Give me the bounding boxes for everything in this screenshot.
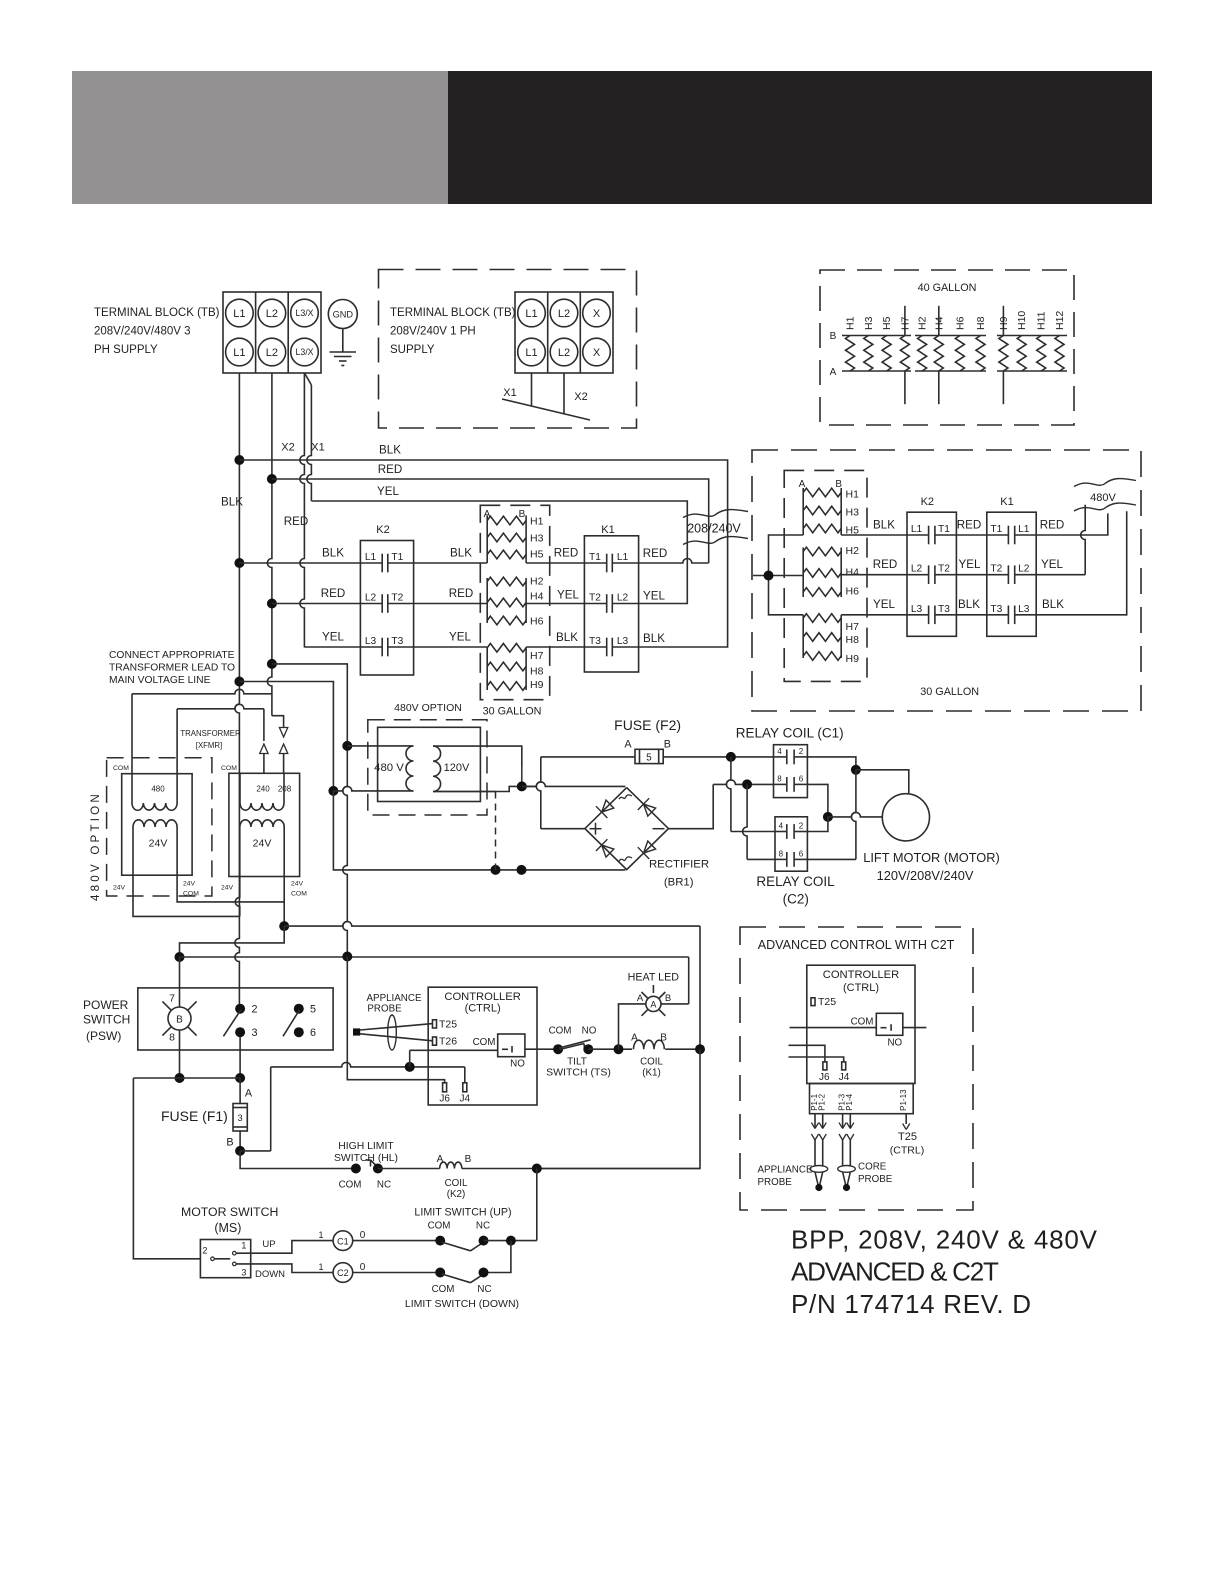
svg-text:H9: H9 — [846, 653, 860, 665]
wire X2 stub — [563, 373, 565, 414]
svg-text:MOTOR SWITCH: MOTOR SWITCH — [181, 1205, 278, 1219]
svg-text:2: 2 — [251, 1004, 257, 1016]
svg-text:T3: T3 — [391, 636, 403, 647]
svg-text:T3: T3 — [589, 636, 601, 647]
svg-text:B: B — [226, 1137, 233, 1149]
480V 30gal g1 rails — [803, 488, 841, 535]
svg-text:H5: H5 — [881, 316, 893, 330]
wire J6 stub (C2T) — [789, 1045, 825, 1062]
PSW contact 2 — [235, 1004, 257, 1016]
svg-text:H3: H3 — [530, 533, 544, 545]
tilt switch COM dot — [553, 1044, 563, 1054]
svg-text:208V/240V 1 PH: 208V/240V 1 PH — [390, 326, 476, 338]
P1 connector strip — [810, 1084, 914, 1114]
appliance probe tip — [353, 1028, 360, 1035]
svg-text:H8: H8 — [530, 665, 544, 677]
label 120V — [444, 762, 470, 774]
svg-text:2: 2 — [799, 822, 804, 831]
svg-text:T2: T2 — [938, 564, 950, 575]
svg-text:SWITCH: SWITCH — [83, 1013, 130, 1027]
svg-text:6: 6 — [799, 774, 804, 783]
PSW contact 5 — [294, 1004, 316, 1016]
svg-text:RED: RED — [378, 463, 402, 476]
label APPLIANCE (C2T) — [758, 1165, 813, 1176]
label YEL2 — [322, 631, 344, 644]
label X2 — [281, 442, 294, 454]
PSW lamp rays — [162, 1001, 196, 1035]
40gal group3 feed wire — [1002, 306, 1004, 404]
label RELAY COIL (C1) — [736, 726, 844, 741]
label 24V (xfmr) — [253, 838, 272, 850]
svg-text:L2: L2 — [266, 347, 278, 359]
1PH terminal L2 @y313 — [550, 299, 578, 327]
label A (K2coil) — [437, 1154, 444, 1165]
K1 contact T1-L1 — [584, 552, 638, 572]
wire 480V K2-K1 row1 — [956, 534, 986, 536]
svg-text:T1: T1 — [938, 524, 950, 535]
junction dot COM-J4 — [405, 1062, 415, 1072]
svg-text:B: B — [176, 1015, 183, 1026]
coil C2 circle — [333, 1263, 353, 1283]
C2 contact 4-2 — [775, 822, 807, 839]
label RED1 — [378, 463, 402, 476]
svg-text:24V: 24V — [113, 885, 126, 892]
svg-text:APPLIANCE: APPLIANCE — [367, 993, 422, 1004]
DOWN COM dot — [435, 1268, 445, 1278]
label RED right-of-K1 — [643, 547, 667, 560]
svg-text:H4: H4 — [933, 316, 945, 330]
svg-text:NO: NO — [510, 1059, 525, 1070]
heater H7 (480V) — [803, 614, 859, 633]
label YEL (480V m2) — [959, 558, 981, 571]
wire K2coil out — [462, 1168, 700, 1170]
svg-text:RED: RED — [873, 558, 897, 571]
wire UP NC out — [484, 1240, 537, 1242]
1PH terminal X @y313 — [583, 299, 611, 327]
480V 30gal left bus — [753, 535, 803, 615]
svg-text:(C2): (C2) — [783, 892, 809, 907]
svg-text:L1: L1 — [525, 308, 537, 320]
label 2 (MS) — [202, 1245, 207, 1255]
core probe collar — [838, 1166, 856, 1173]
dashed box advanced control — [740, 927, 973, 1210]
label A (F1) — [245, 1088, 253, 1100]
svg-text:COM: COM — [428, 1221, 451, 1232]
label A (K1coil) — [631, 1033, 638, 1044]
svg-text:GND: GND — [333, 310, 354, 320]
junction dot 120V com — [517, 781, 527, 791]
svg-text:L1: L1 — [1018, 524, 1030, 535]
svg-text:P1-2: P1-2 — [818, 1093, 827, 1110]
ctrl NO box — [498, 1034, 525, 1057]
wire YEL1 — [311, 501, 687, 604]
svg-text:24V: 24V — [183, 881, 196, 888]
wire 347 vertical — [343, 746, 348, 957]
label ADVANCED CONTROL WITH C2T — [758, 938, 955, 952]
PSW lamp B — [168, 1007, 191, 1030]
appliance probe tip dot — [815, 1184, 822, 1191]
break squiggle upper 208/240 — [683, 510, 748, 518]
heater H12 — [1054, 311, 1066, 371]
svg-text:P1-13: P1-13 — [899, 1089, 908, 1111]
label TILT — [567, 1057, 587, 1068]
terminal J6 — [439, 1083, 450, 1105]
wire LED right — [661, 1003, 689, 1005]
wire left xfmr 480 lead — [177, 704, 264, 773]
heater H6 (30gal) — [487, 615, 543, 627]
label [XFMR] — [196, 741, 222, 750]
title BPP line2 — [791, 1257, 999, 1287]
wire F1 to COM riser — [240, 1067, 271, 1151]
power switch box — [138, 988, 333, 1050]
winding 240/208 primary — [240, 773, 284, 810]
svg-text:YEL: YEL — [377, 485, 399, 498]
svg-text:(K2): (K2) — [447, 1189, 466, 1200]
wire X1 jog — [305, 374, 312, 386]
wire K1coil out — [665, 1048, 700, 1050]
wire HL to K2coil — [378, 1168, 440, 1170]
label K1 — [601, 524, 614, 536]
svg-text:CONNECT APPROPRIATE: CONNECT APPROPRIATE — [109, 650, 235, 661]
svg-text:A: A — [830, 367, 837, 378]
1PH terminal X @y352 — [583, 338, 611, 366]
label 7 — [169, 993, 175, 1005]
svg-text:T1: T1 — [990, 524, 1002, 535]
junction dot dashed-120V — [491, 865, 501, 875]
heater H1 (480V) — [803, 488, 859, 500]
svg-text:H3: H3 — [863, 316, 875, 330]
label CONTROLLER (C2T) — [823, 969, 899, 981]
svg-text:COM: COM — [221, 765, 237, 772]
480V K1 contact T3-L3 — [987, 604, 1036, 624]
svg-text:BLK: BLK — [221, 496, 243, 509]
wire PSW 3 down — [239, 1037, 241, 1078]
svg-text:YEL: YEL — [322, 631, 344, 644]
svg-text:BLK: BLK — [643, 632, 665, 645]
svg-text:24V: 24V — [253, 838, 272, 850]
label 480 — [151, 785, 165, 794]
label P1-2 — [818, 1093, 827, 1110]
label YEL (480V out) — [1041, 558, 1063, 571]
svg-text:K2: K2 — [376, 524, 389, 536]
appliance probe leads — [811, 1114, 826, 1166]
label BLK2 — [322, 547, 344, 560]
terminal L3/X @y313 — [291, 299, 319, 327]
wire branch to C2-8 — [743, 784, 775, 859]
svg-text:PROBE: PROBE — [367, 1004, 402, 1015]
junction dot L1-xfmr — [234, 677, 244, 687]
svg-text:0: 0 — [360, 1230, 366, 1241]
svg-text:L2: L2 — [1018, 564, 1030, 575]
terminal GND — [328, 300, 357, 329]
svg-text:LIFT MOTOR (MOTOR): LIFT MOTOR (MOTOR) — [863, 850, 1000, 865]
svg-text:A: A — [631, 1033, 638, 1044]
coil C1 circle — [333, 1231, 353, 1251]
svg-text:YEL: YEL — [643, 590, 665, 603]
svg-text:RED: RED — [1040, 519, 1064, 532]
wire BLK2 to K2 — [239, 562, 360, 564]
diode SE — [638, 841, 656, 859]
svg-text:H3: H3 — [846, 507, 860, 519]
svg-text:H4: H4 — [530, 591, 544, 603]
svg-text:J6: J6 — [819, 1072, 830, 1083]
svg-text:COM: COM — [432, 1284, 455, 1295]
heater H9 — [998, 316, 1010, 371]
dashed box 30 gallon — [480, 505, 549, 699]
label B (30gal) — [519, 509, 526, 520]
wire L1/BLK vertical — [235, 373, 239, 1009]
svg-text:H4: H4 — [846, 567, 860, 579]
heater H4 (30gal) — [487, 591, 543, 607]
appliance probe cone — [360, 1024, 433, 1041]
wire 480V row3 — [841, 614, 907, 616]
title BPP line1 — [791, 1225, 1098, 1255]
svg-text:(K1): (K1) — [642, 1068, 661, 1079]
label BLK (480V m3) — [958, 598, 980, 611]
label NC (HL) — [377, 1180, 391, 1191]
label COM (C2T) — [851, 1017, 874, 1028]
svg-text:PROBE: PROBE — [758, 1177, 793, 1188]
svg-text:YEL: YEL — [959, 558, 981, 571]
svg-text:H10: H10 — [1016, 311, 1028, 330]
1PH terminal L1 @y352 — [518, 338, 546, 366]
svg-text:RELAY COIL: RELAY COIL — [756, 874, 835, 889]
svg-text:K2: K2 — [921, 496, 934, 508]
K1 contact T3-L3 — [584, 636, 638, 656]
label (CTRL) (lead) — [890, 1145, 924, 1157]
wire 120V tap stub — [433, 791, 496, 793]
heater H2 — [917, 316, 929, 371]
svg-text:T3: T3 — [938, 604, 950, 615]
svg-text:(CTRL): (CTRL) — [465, 1003, 501, 1015]
heater H3 — [863, 316, 875, 371]
svg-text:NO: NO — [887, 1038, 902, 1049]
C1 contact 8-6 — [774, 774, 808, 791]
svg-text:24V: 24V — [291, 881, 304, 888]
svg-text:ADVANCED & C2T: ADVANCED & C2T — [791, 1257, 999, 1287]
40gal group2 rails — [915, 336, 986, 372]
svg-text:RED: RED — [284, 515, 308, 528]
terminal L3/X @y352 — [291, 338, 319, 366]
heater H7 — [899, 316, 911, 371]
diode NE — [638, 798, 656, 816]
svg-text:2: 2 — [202, 1245, 207, 1255]
label A (30gal) — [484, 509, 491, 520]
junction dot F2 out — [726, 752, 736, 762]
svg-text:6: 6 — [799, 849, 804, 858]
svg-text:7: 7 — [169, 993, 175, 1005]
label RED (480V out) — [1040, 519, 1064, 532]
rectifier + mark — [590, 823, 602, 835]
contactor K1 box — [584, 536, 638, 672]
label YEL right-of-K1 — [643, 590, 665, 603]
svg-text:COM: COM — [473, 1037, 496, 1048]
svg-text:T2: T2 — [391, 593, 403, 604]
svg-text:L2: L2 — [558, 308, 570, 320]
label B (K1coil) — [660, 1033, 667, 1044]
svg-text:K1: K1 — [601, 524, 614, 536]
svg-text:[XFMR]: [XFMR] — [196, 741, 222, 750]
svg-text:A: A — [650, 999, 656, 1009]
label (MS) — [214, 1221, 241, 1235]
svg-text:J6: J6 — [439, 1094, 450, 1105]
core probe tip dot — [843, 1184, 850, 1191]
svg-text:3: 3 — [241, 1267, 246, 1277]
junction dot motor feed — [851, 765, 861, 775]
svg-text:COM: COM — [113, 765, 129, 772]
svg-text:T25: T25 — [439, 1018, 457, 1030]
relay coil C1 box — [774, 745, 808, 798]
svg-text:COM: COM — [851, 1017, 874, 1028]
svg-text:240: 240 — [256, 785, 270, 794]
heater H9 (480V) — [803, 652, 859, 665]
heater H8 — [975, 316, 987, 371]
wire MS-3 to C2 row — [236, 1264, 333, 1273]
svg-text:PROBE: PROBE — [858, 1174, 893, 1185]
label BLK left — [221, 496, 243, 509]
svg-text:120V/208V/240V: 120V/208V/240V — [877, 868, 974, 883]
wire COM (C2T) — [790, 1027, 877, 1029]
svg-text:H5: H5 — [530, 549, 544, 561]
K2 contact L2-T2 — [360, 593, 413, 613]
label NO (TS) — [582, 1026, 597, 1037]
rectifier ~ top — [619, 795, 632, 799]
label RECTIFIER — [649, 859, 709, 871]
wire BLK to xfmr area — [239, 682, 333, 791]
label 40 GALLON — [918, 282, 977, 294]
label FUSE (F2) — [614, 717, 681, 733]
svg-text:3: 3 — [238, 1113, 243, 1123]
svg-text:COM: COM — [291, 891, 307, 898]
svg-text:BLK: BLK — [958, 598, 980, 611]
svg-text:L1: L1 — [617, 552, 629, 563]
svg-text:X: X — [593, 308, 601, 320]
wire C1-6 down — [807, 784, 828, 817]
label 240 — [256, 785, 270, 794]
wire left xfmr COM lead — [132, 689, 272, 773]
svg-text:H9: H9 — [530, 679, 544, 691]
terminal L1 @y352 — [226, 338, 254, 366]
rectifier - mark — [653, 828, 665, 830]
svg-text:480: 480 — [151, 785, 165, 794]
appliance probe collar — [388, 1015, 397, 1050]
MS contact 1 — [233, 1251, 237, 1255]
svg-text:PH SUPPLY: PH SUPPLY — [94, 344, 158, 356]
svg-text:0: 0 — [360, 1262, 366, 1273]
label 30 GALLON — [483, 706, 542, 718]
dashed box 480V option (right) — [752, 450, 1141, 711]
winding 24V secondary (left) — [133, 820, 177, 875]
30gal g1 rails — [487, 516, 526, 564]
svg-text:UP: UP — [262, 1239, 275, 1250]
label T25 (lead) — [898, 1131, 917, 1143]
DOWN blade — [442, 1274, 484, 1283]
PSW contact 6 — [294, 1027, 316, 1039]
junction dot 24Vcom — [279, 921, 289, 931]
contactor K1 box (480V) — [987, 512, 1036, 636]
svg-text:L2: L2 — [266, 308, 278, 320]
wire left xfmr 24Vcom out — [177, 875, 284, 902]
svg-text:YEL: YEL — [449, 631, 471, 644]
wire PSW out bus — [133, 1077, 240, 1079]
relay coil C2 box — [775, 817, 807, 871]
wire fuse F1 out — [239, 1131, 241, 1151]
svg-text:H9: H9 — [998, 316, 1010, 330]
wire C2-6 up — [807, 770, 856, 860]
svg-text:L1: L1 — [525, 347, 537, 359]
wire 24Vcom loop — [180, 926, 285, 957]
label BLK k2-30gal — [450, 547, 472, 560]
wire 480V row2 — [841, 574, 907, 576]
label BLK right-of-K1 — [643, 632, 665, 645]
svg-text:L2: L2 — [365, 593, 377, 604]
480V 30gal g2 rails — [803, 548, 841, 598]
svg-text:480 V: 480 V — [374, 762, 404, 774]
label B (F1) — [226, 1137, 233, 1149]
terminal T25 (C2T) — [811, 996, 836, 1008]
svg-text:5: 5 — [310, 1004, 316, 1016]
T25 ctrl lead — [903, 1114, 910, 1130]
wire COM bus — [271, 1062, 465, 1082]
ground symbol — [330, 329, 357, 366]
junction dot motor left — [823, 812, 833, 822]
wire lamp bottom — [179, 1030, 181, 1078]
controller box — [428, 987, 537, 1105]
dashed box 30 gallon (480V) — [784, 470, 867, 681]
svg-text:30 GALLON: 30 GALLON — [920, 686, 979, 698]
label P1-13 — [899, 1089, 908, 1111]
wire X1 stub — [531, 373, 533, 406]
480V K2 contact L3-T3 — [907, 604, 956, 624]
svg-text:B: B — [830, 331, 837, 342]
svg-text:A: A — [245, 1088, 253, 1100]
svg-text:L2: L2 — [911, 564, 923, 575]
480V 30gal g3 rails — [803, 615, 841, 658]
label YEL1 — [377, 485, 399, 498]
svg-text:L1: L1 — [365, 552, 377, 563]
dashed box 1PH supply — [379, 270, 637, 429]
svg-text:208/240V: 208/240V — [687, 522, 741, 536]
wire TS to K1coil — [588, 1048, 632, 1050]
wire NO out (C2T) — [903, 1027, 927, 1029]
label 1 (MS) — [241, 1240, 246, 1250]
label 480V OPTION (xfmr) — [394, 702, 462, 714]
svg-text:H8: H8 — [846, 634, 860, 646]
svg-text:L3/X: L3/X — [295, 347, 313, 357]
svg-text:A: A — [637, 993, 644, 1004]
label P1-4 — [845, 1093, 854, 1110]
label COIL (K2) — [445, 1178, 468, 1200]
wire rect- to C1-8 — [669, 780, 774, 829]
label 120V/208V/240V — [877, 868, 974, 883]
junction dot L2-RED1 — [267, 474, 277, 484]
40gal group1 feed wire — [904, 306, 906, 404]
junction dot L2-xfmr — [267, 659, 277, 669]
tilt switch blade — [559, 1040, 591, 1050]
svg-text:H6: H6 — [954, 316, 966, 330]
wire fuse F2 left — [536, 757, 635, 829]
label 208 — [278, 785, 292, 794]
terminal J4 — [460, 1083, 471, 1105]
svg-text:B: B — [665, 993, 671, 1004]
heater H2 (480V) — [803, 545, 859, 557]
heater H6 — [954, 316, 966, 371]
label COM (UP) — [428, 1221, 451, 1232]
label PROBE (C2T) — [758, 1177, 793, 1188]
note connect transformer lead — [109, 650, 235, 686]
wire MS-1 to C1 row — [236, 1241, 333, 1254]
label B (LED) — [665, 993, 671, 1004]
